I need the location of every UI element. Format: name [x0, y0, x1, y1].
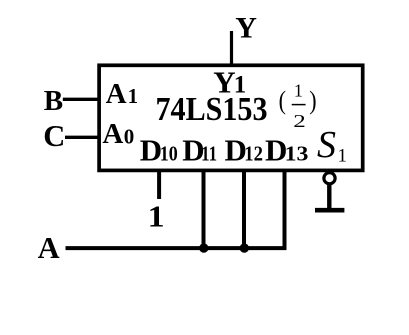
pin label D12 — [225, 133, 264, 168]
pin label D10 — [140, 133, 178, 168]
svg-text:A: A — [106, 78, 127, 110]
svg-text:A: A — [102, 118, 123, 150]
wire C input — [65, 136, 99, 139]
pin label D13 — [265, 133, 308, 168]
svg-text:10: 10 — [160, 142, 178, 166]
junction dot at D11 — [199, 243, 208, 252]
svg-text:Y: Y — [235, 12, 257, 45]
svg-text:0: 0 — [124, 124, 135, 148]
IC box U1 (74LS153 half) — [99, 65, 363, 170]
pin label A1 — [106, 78, 139, 110]
svg-text:1: 1 — [128, 84, 139, 108]
svg-text:1: 1 — [294, 81, 303, 101]
svg-text:(: ( — [279, 87, 286, 115]
svg-text:13: 13 — [285, 142, 309, 166]
pin label Y1 — [213, 65, 246, 100]
wire D12 pin — [242, 170, 246, 248]
wire S1 to ground — [327, 184, 331, 210]
inverter bubble on S1 — [324, 173, 335, 184]
wire D10 stub — [157, 170, 161, 199]
pin label D11 — [182, 133, 217, 168]
svg-text:C: C — [43, 119, 65, 153]
svg-text:11: 11 — [201, 142, 217, 166]
pin label S1 (strobe) — [317, 124, 347, 166]
wire Y output (top) — [230, 31, 233, 65]
wire A bus to D13 — [66, 170, 285, 248]
svg-text:1: 1 — [338, 146, 348, 167]
ground symbol — [315, 208, 344, 213]
junction dot at D12 — [240, 243, 249, 252]
pin label A0 — [102, 118, 134, 150]
wire B input — [63, 98, 99, 101]
svg-text:1: 1 — [148, 199, 165, 234]
svg-text:): ) — [309, 87, 316, 115]
svg-text:S: S — [317, 124, 336, 166]
svg-text:A: A — [38, 231, 60, 265]
svg-text:B: B — [44, 85, 63, 117]
wire D11 pin — [202, 170, 206, 248]
svg-text:74LS153: 74LS153 — [156, 91, 268, 128]
svg-text:12: 12 — [244, 142, 263, 166]
annotation (1/2) fraction — [279, 81, 317, 131]
svg-text:2: 2 — [293, 111, 306, 131]
